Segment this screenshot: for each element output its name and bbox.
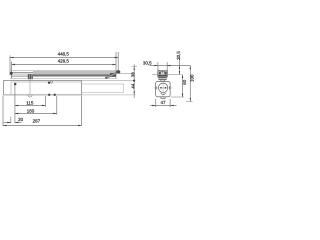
svg-text:20,5: 20,5 — [176, 51, 181, 60]
svg-text:44: 44 — [131, 83, 136, 89]
svg-text:160: 160 — [27, 108, 35, 113]
svg-text:115: 115 — [26, 100, 34, 105]
svg-text:30,5: 30,5 — [143, 60, 152, 65]
svg-text:428,5: 428,5 — [58, 58, 70, 63]
svg-text:47: 47 — [160, 100, 166, 105]
svg-text:448,5: 448,5 — [58, 52, 70, 57]
svg-text:287: 287 — [33, 119, 41, 124]
svg-text:100: 100 — [189, 74, 194, 82]
svg-text:60: 60 — [182, 79, 187, 85]
svg-text:20: 20 — [18, 117, 24, 122]
svg-text:38: 38 — [131, 72, 136, 78]
